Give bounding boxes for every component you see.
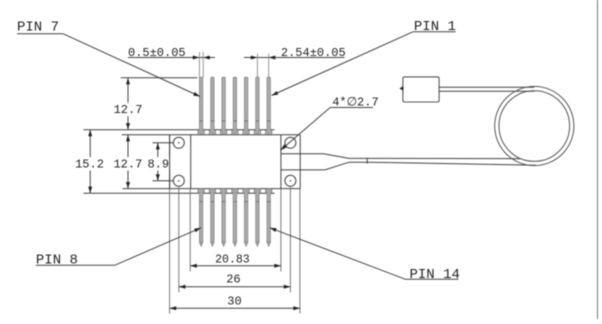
- svg-text:PIN 7: PIN 7: [17, 20, 59, 36]
- svg-text:2.54±0.05: 2.54±0.05: [281, 46, 346, 60]
- svg-text:PIN 8: PIN 8: [36, 253, 78, 269]
- svg-text:20.83: 20.83: [215, 254, 250, 267]
- svg-text:8.9: 8.9: [147, 158, 169, 172]
- svg-text:PIN 14: PIN 14: [410, 267, 460, 283]
- svg-text:26: 26: [226, 273, 240, 287]
- svg-text:PIN 1: PIN 1: [414, 19, 456, 35]
- svg-text:15.2: 15.2: [75, 158, 104, 172]
- svg-text:12.7: 12.7: [113, 158, 142, 172]
- svg-text:30: 30: [227, 295, 241, 309]
- svg-text:0.5±0.05: 0.5±0.05: [128, 46, 186, 60]
- svg-text:12.7: 12.7: [114, 103, 143, 117]
